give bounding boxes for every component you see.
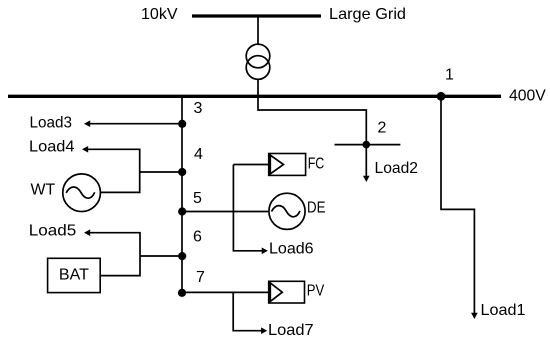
svg-text:400V: 400V [509, 88, 546, 105]
svg-text:BAT: BAT [59, 267, 89, 284]
svg-text:Load4: Load4 [29, 139, 75, 156]
svg-text:PV: PV [307, 283, 325, 300]
svg-text:4: 4 [194, 146, 203, 163]
svg-text:3: 3 [194, 100, 203, 117]
svg-text:1: 1 [445, 67, 454, 84]
svg-text:Load1: Load1 [481, 302, 526, 319]
svg-text:7: 7 [196, 269, 205, 286]
svg-text:10kV: 10kV [141, 6, 178, 23]
svg-text:Load5: Load5 [29, 223, 76, 240]
svg-text:Load6: Load6 [269, 240, 314, 257]
svg-text:Large Grid: Large Grid [329, 6, 406, 23]
svg-text:FC: FC [308, 156, 325, 173]
svg-text:Load2: Load2 [375, 160, 419, 177]
svg-text:6: 6 [193, 229, 202, 246]
svg-text:Load7: Load7 [268, 322, 314, 339]
svg-text:2: 2 [378, 120, 387, 137]
svg-text:5: 5 [193, 190, 202, 207]
svg-text:WT: WT [31, 182, 56, 199]
svg-text:Load3: Load3 [30, 115, 73, 132]
svg-text:DE: DE [307, 200, 326, 217]
